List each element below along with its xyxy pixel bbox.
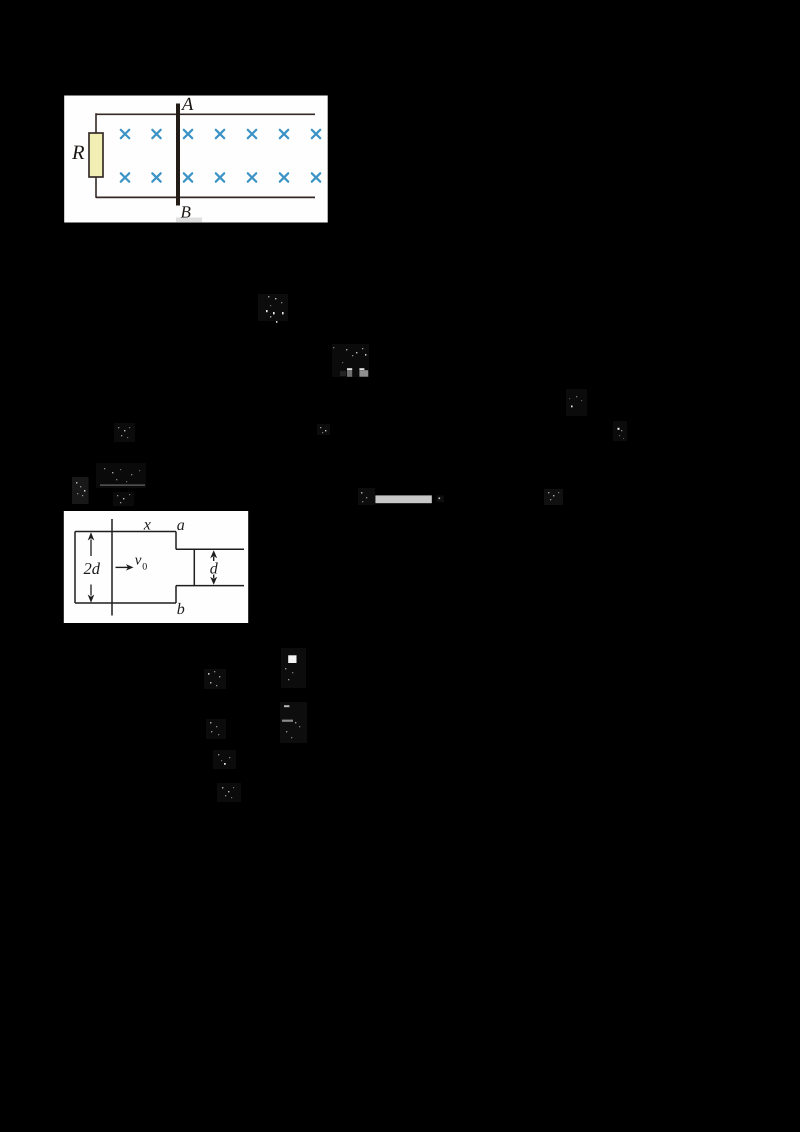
faint speck cluster 4 — [613, 421, 627, 441]
wire: narrow channel top plate a — [176, 548, 244, 550]
wire: top step vertical — [175, 532, 177, 550]
svg-text:b: b — [177, 601, 185, 618]
faint speck cluster 14 — [213, 750, 236, 769]
faint speck cluster 10 — [544, 489, 563, 505]
wire: wide channel top plate — [75, 531, 176, 533]
faint patch before gray bar cluster 9 — [358, 488, 375, 505]
boundary vertical line — [111, 519, 113, 616]
faint formula patch noise cluster 1 — [258, 294, 288, 323]
wire: narrow channel bottom plate b — [176, 585, 244, 587]
faint speck cluster 13 — [206, 719, 226, 739]
magnetic field crosses row 1 — [121, 130, 320, 138]
wire: bottom step vertical — [175, 586, 177, 603]
svg-text:x: x — [143, 517, 151, 534]
svg-text:0: 0 — [142, 562, 147, 573]
faint speck cluster 15 — [217, 783, 241, 802]
plate gap bar — [193, 549, 195, 585]
dimension arrow 2d — [90, 540, 92, 596]
svg-text:2d: 2d — [84, 559, 101, 578]
faint speck cluster 3a — [317, 424, 330, 435]
light gray underline bar — [375, 495, 431, 503]
magnetic field crosses row 2 — [121, 173, 320, 181]
svg-text:v: v — [135, 553, 142, 569]
wire: wide channel left wall — [74, 532, 76, 604]
faint cluster 12 with dash and bar — [280, 702, 307, 743]
smudge under B — [176, 218, 202, 223]
figure 2 panel (stepped channel with plates) — [64, 511, 248, 623]
faint speck cluster 3 — [566, 389, 587, 416]
wire: left vertical (top rail to resistor) — [95, 113, 97, 134]
svg-text:a: a — [177, 517, 185, 534]
svg-text:A: A — [180, 95, 194, 115]
wire: wide channel bottom plate — [75, 602, 176, 604]
faint formula patch noise cluster 2 with bright dashes — [332, 344, 369, 377]
wire: bottom rail — [96, 196, 315, 198]
wire: top rail — [96, 113, 315, 115]
wire: left vertical (resistor to bottom rail) — [95, 176, 97, 198]
dimension arrow d up — [213, 557, 215, 562]
conducting bar AB — [176, 104, 180, 206]
speck right of bar — [437, 496, 445, 503]
resistor R — [89, 133, 103, 177]
faint block cluster 7 — [72, 477, 89, 504]
faint formula with fraction bar cluster 6 — [96, 463, 146, 488]
figure 1 panel (circuit with rails in magnetic field) — [64, 96, 328, 223]
faint circle speck cluster 11 — [204, 669, 226, 689]
dimension arrow d down — [213, 575, 215, 579]
velocity arrow v0 — [116, 566, 130, 568]
svg-text:R: R — [71, 142, 85, 164]
white square fragment — [281, 648, 306, 688]
faint speck cluster 8 — [113, 492, 134, 506]
faint speck cluster 5 — [114, 423, 135, 442]
